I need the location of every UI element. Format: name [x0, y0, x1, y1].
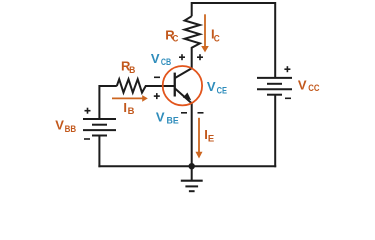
svg-text:C: C: [214, 33, 220, 44]
svg-text:BB: BB: [65, 124, 77, 135]
svg-text:V: V: [298, 77, 307, 92]
svg-text:B: B: [129, 65, 135, 76]
svg-text:CE: CE: [217, 86, 227, 97]
svg-text:CB: CB: [161, 57, 171, 68]
svg-text:I: I: [123, 100, 127, 115]
svg-text:B: B: [128, 106, 135, 117]
svg-text:V: V: [55, 118, 64, 133]
svg-text:BE: BE: [167, 116, 179, 127]
svg-text:E: E: [208, 134, 214, 145]
svg-text:CC: CC: [308, 83, 319, 94]
svg-text:V: V: [207, 79, 216, 94]
svg-text:C: C: [172, 33, 178, 44]
svg-text:V: V: [156, 109, 165, 124]
svg-text:V: V: [151, 51, 160, 66]
